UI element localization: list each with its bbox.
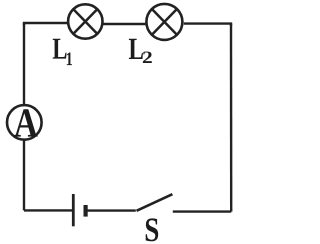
label S [146,218,159,241]
wire right vertical [230,24,233,212]
wire top-right segment [184,24,231,26]
lamp L1 [68,4,102,38]
wire left vertical upper (top corner to ammeter) [23,23,25,105]
ammeter A circle [7,105,42,140]
ammeter letter A [14,109,37,136]
wire battery to switch [87,209,136,211]
wire top-left segment [24,23,67,25]
label L1 [53,39,72,65]
switch S blade [137,194,173,211]
wire between L1 and L2 [104,23,146,25]
wire bottom-left (corner to battery) [24,209,73,211]
wire left vertical lower (ammeter to bottom corner) [23,141,25,211]
lamp L2 [146,4,182,40]
battery short plate (negative) [83,205,87,217]
wire switch to bottom-right corner [173,210,231,212]
label L2 [129,39,152,63]
battery long plate (positive) [72,194,75,226]
